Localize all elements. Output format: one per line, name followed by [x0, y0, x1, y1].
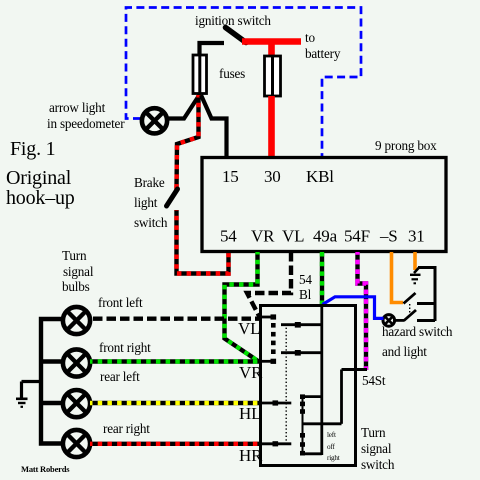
wire row C: [303, 452, 322, 455]
hazard light lamp: [383, 315, 395, 327]
fuse F1: [193, 55, 207, 94]
svg-text:Turn: Turn: [361, 425, 386, 440]
hazard switch lower blade: [404, 310, 416, 321]
wire red drop to fuse F2: [268, 42, 275, 58]
wire VR to front-right feed (black/green): [225, 252, 259, 361]
svg-text:Brake: Brake: [134, 175, 165, 190]
wire 49a to turn signal switch (black/green): [320, 252, 324, 304]
svg-text:ignition switch: ignition switch: [195, 13, 271, 28]
svg-text:HL: HL: [239, 404, 261, 423]
wire to battery (red bus): [242, 38, 301, 45]
svg-text:49a: 49a: [313, 227, 338, 246]
wire front right bulb to switch (black/green): [90, 359, 261, 363]
svg-text:Bl: Bl: [299, 287, 312, 302]
svg-text:off: off: [327, 443, 335, 451]
svg-text:–S: –S: [379, 227, 398, 246]
wire lamp to fuse F1 bottom: [168, 94, 201, 119]
svg-text:arrow light: arrow light: [49, 100, 106, 115]
ground at 31: [410, 267, 421, 283]
ground at bulbs: [16, 382, 41, 407]
svg-text:VR: VR: [239, 363, 263, 382]
svg-text:54: 54: [220, 227, 237, 246]
turn signal switch box S2: [261, 306, 356, 466]
svg-text:signal: signal: [63, 264, 94, 279]
svg-text:front left: front left: [98, 295, 143, 310]
movable contact bar (upper): [271, 323, 276, 354]
svg-text:rear left: rear left: [100, 369, 140, 384]
wire lamp to hazard blade: [395, 319, 405, 322]
switch contact row 1: [281, 323, 322, 326]
bulb rear right: [63, 430, 90, 457]
svg-text:switch: switch: [361, 457, 395, 472]
hazard circuit top wire: [418, 266, 435, 269]
switch contact row 2: [281, 351, 322, 354]
svg-text:HR: HR: [239, 446, 263, 465]
lamp: arrow light in speedometer: [142, 108, 167, 133]
VR stub contact: [261, 360, 274, 363]
wire rear right bulb to switch (black/red): [90, 442, 261, 446]
movable contact bar (lower): [300, 394, 305, 455]
switch internal feed V2 from 54St: [340, 370, 343, 424]
wire row A: [303, 395, 322, 398]
wire fuse F1 to brake light switch (black/red): [177, 95, 199, 190]
mechanical linkage (dotted): [285, 324, 287, 442]
wire V1-V2 bridge: [303, 422, 342, 425]
svg-text:front right: front right: [99, 340, 151, 355]
svg-text:bulbs: bulbs: [62, 279, 90, 294]
svg-text:Original: Original: [6, 167, 72, 189]
hazard circuit middle contact wire: [417, 302, 435, 305]
wire fuse F1 to terminal 15: [201, 95, 227, 157]
hazard circuit right wire: [434, 266, 437, 321]
svg-text:to: to: [305, 30, 315, 45]
svg-text:right: right: [327, 454, 340, 462]
wire fuse F2 to terminal 30 (red): [268, 96, 275, 157]
svg-text:VL: VL: [238, 319, 260, 338]
svg-text:light: light: [134, 195, 158, 210]
fuse F2: [265, 56, 281, 96]
wire brake switch to terminal 54 (black/red): [177, 210, 229, 274]
HR stub contact: [261, 442, 292, 445]
svg-text:battery: battery: [305, 46, 341, 61]
svg-text:VL: VL: [282, 227, 304, 246]
HL stub contact: [261, 402, 292, 405]
wire -S to hazard switch (orange): [392, 252, 404, 303]
svg-text:Matt Roberds: Matt Roberds: [21, 464, 70, 474]
svg-text:hook–up: hook–up: [6, 187, 75, 209]
wire front left bulb to switch (black/white dashed): [93, 317, 261, 321]
svg-text:signal: signal: [361, 441, 392, 456]
svg-text:54F: 54F: [344, 227, 370, 246]
svg-text:fuses: fuses: [219, 66, 245, 81]
VL stub contact: [261, 316, 274, 319]
svg-text:54St: 54St: [362, 373, 386, 388]
svg-text:15: 15: [222, 167, 239, 186]
bulb rear left: [63, 390, 90, 417]
brake light switch blade: [167, 189, 178, 206]
svg-text:switch: switch: [134, 215, 168, 230]
wire 31 to ground (orange): [413, 252, 417, 270]
svg-text:9 prong box: 9 prong box: [375, 138, 437, 153]
svg-text:31: 31: [408, 227, 425, 246]
bulb front right: [63, 349, 90, 376]
wire 54F to 54St (black/magenta): [358, 252, 367, 370]
bulb ground bus: [41, 319, 63, 444]
svg-text:hazard switch: hazard switch: [382, 324, 453, 339]
svg-text:rear right: rear right: [103, 421, 150, 436]
svg-text:and light: and light: [382, 344, 427, 359]
svg-text:in speedometer: in speedometer: [47, 116, 125, 131]
svg-text:KBl: KBl: [306, 167, 334, 186]
wire rear left bulb to switch (black/yellow): [90, 401, 261, 405]
wire fuse1 to ignition switch: [200, 43, 225, 56]
svg-text:VR: VR: [251, 227, 275, 246]
dashed ignition-circuit enclosure: [126, 8, 361, 158]
hazard switch linkage (dotted): [409, 304, 411, 317]
svg-text:54: 54: [299, 272, 312, 287]
ignition switch blade S1: [226, 28, 247, 43]
wire 54St junction: [342, 368, 368, 371]
wire VL to front-left feed (black/white dashed): [247, 252, 291, 317]
svg-text:left: left: [327, 431, 336, 439]
hazard switch upper blade: [404, 293, 416, 304]
bulb front left: [63, 307, 90, 334]
wire hazard feed (blue): [323, 297, 384, 319]
svg-text:Fig. 1: Fig. 1: [10, 138, 55, 160]
switch internal feed V1 from 49a: [320, 306, 323, 455]
svg-text:Turn: Turn: [62, 248, 87, 263]
hazard circuit bottom contact wire: [417, 319, 435, 322]
9 prong box U1: [202, 158, 446, 252]
svg-text:30: 30: [264, 167, 281, 186]
